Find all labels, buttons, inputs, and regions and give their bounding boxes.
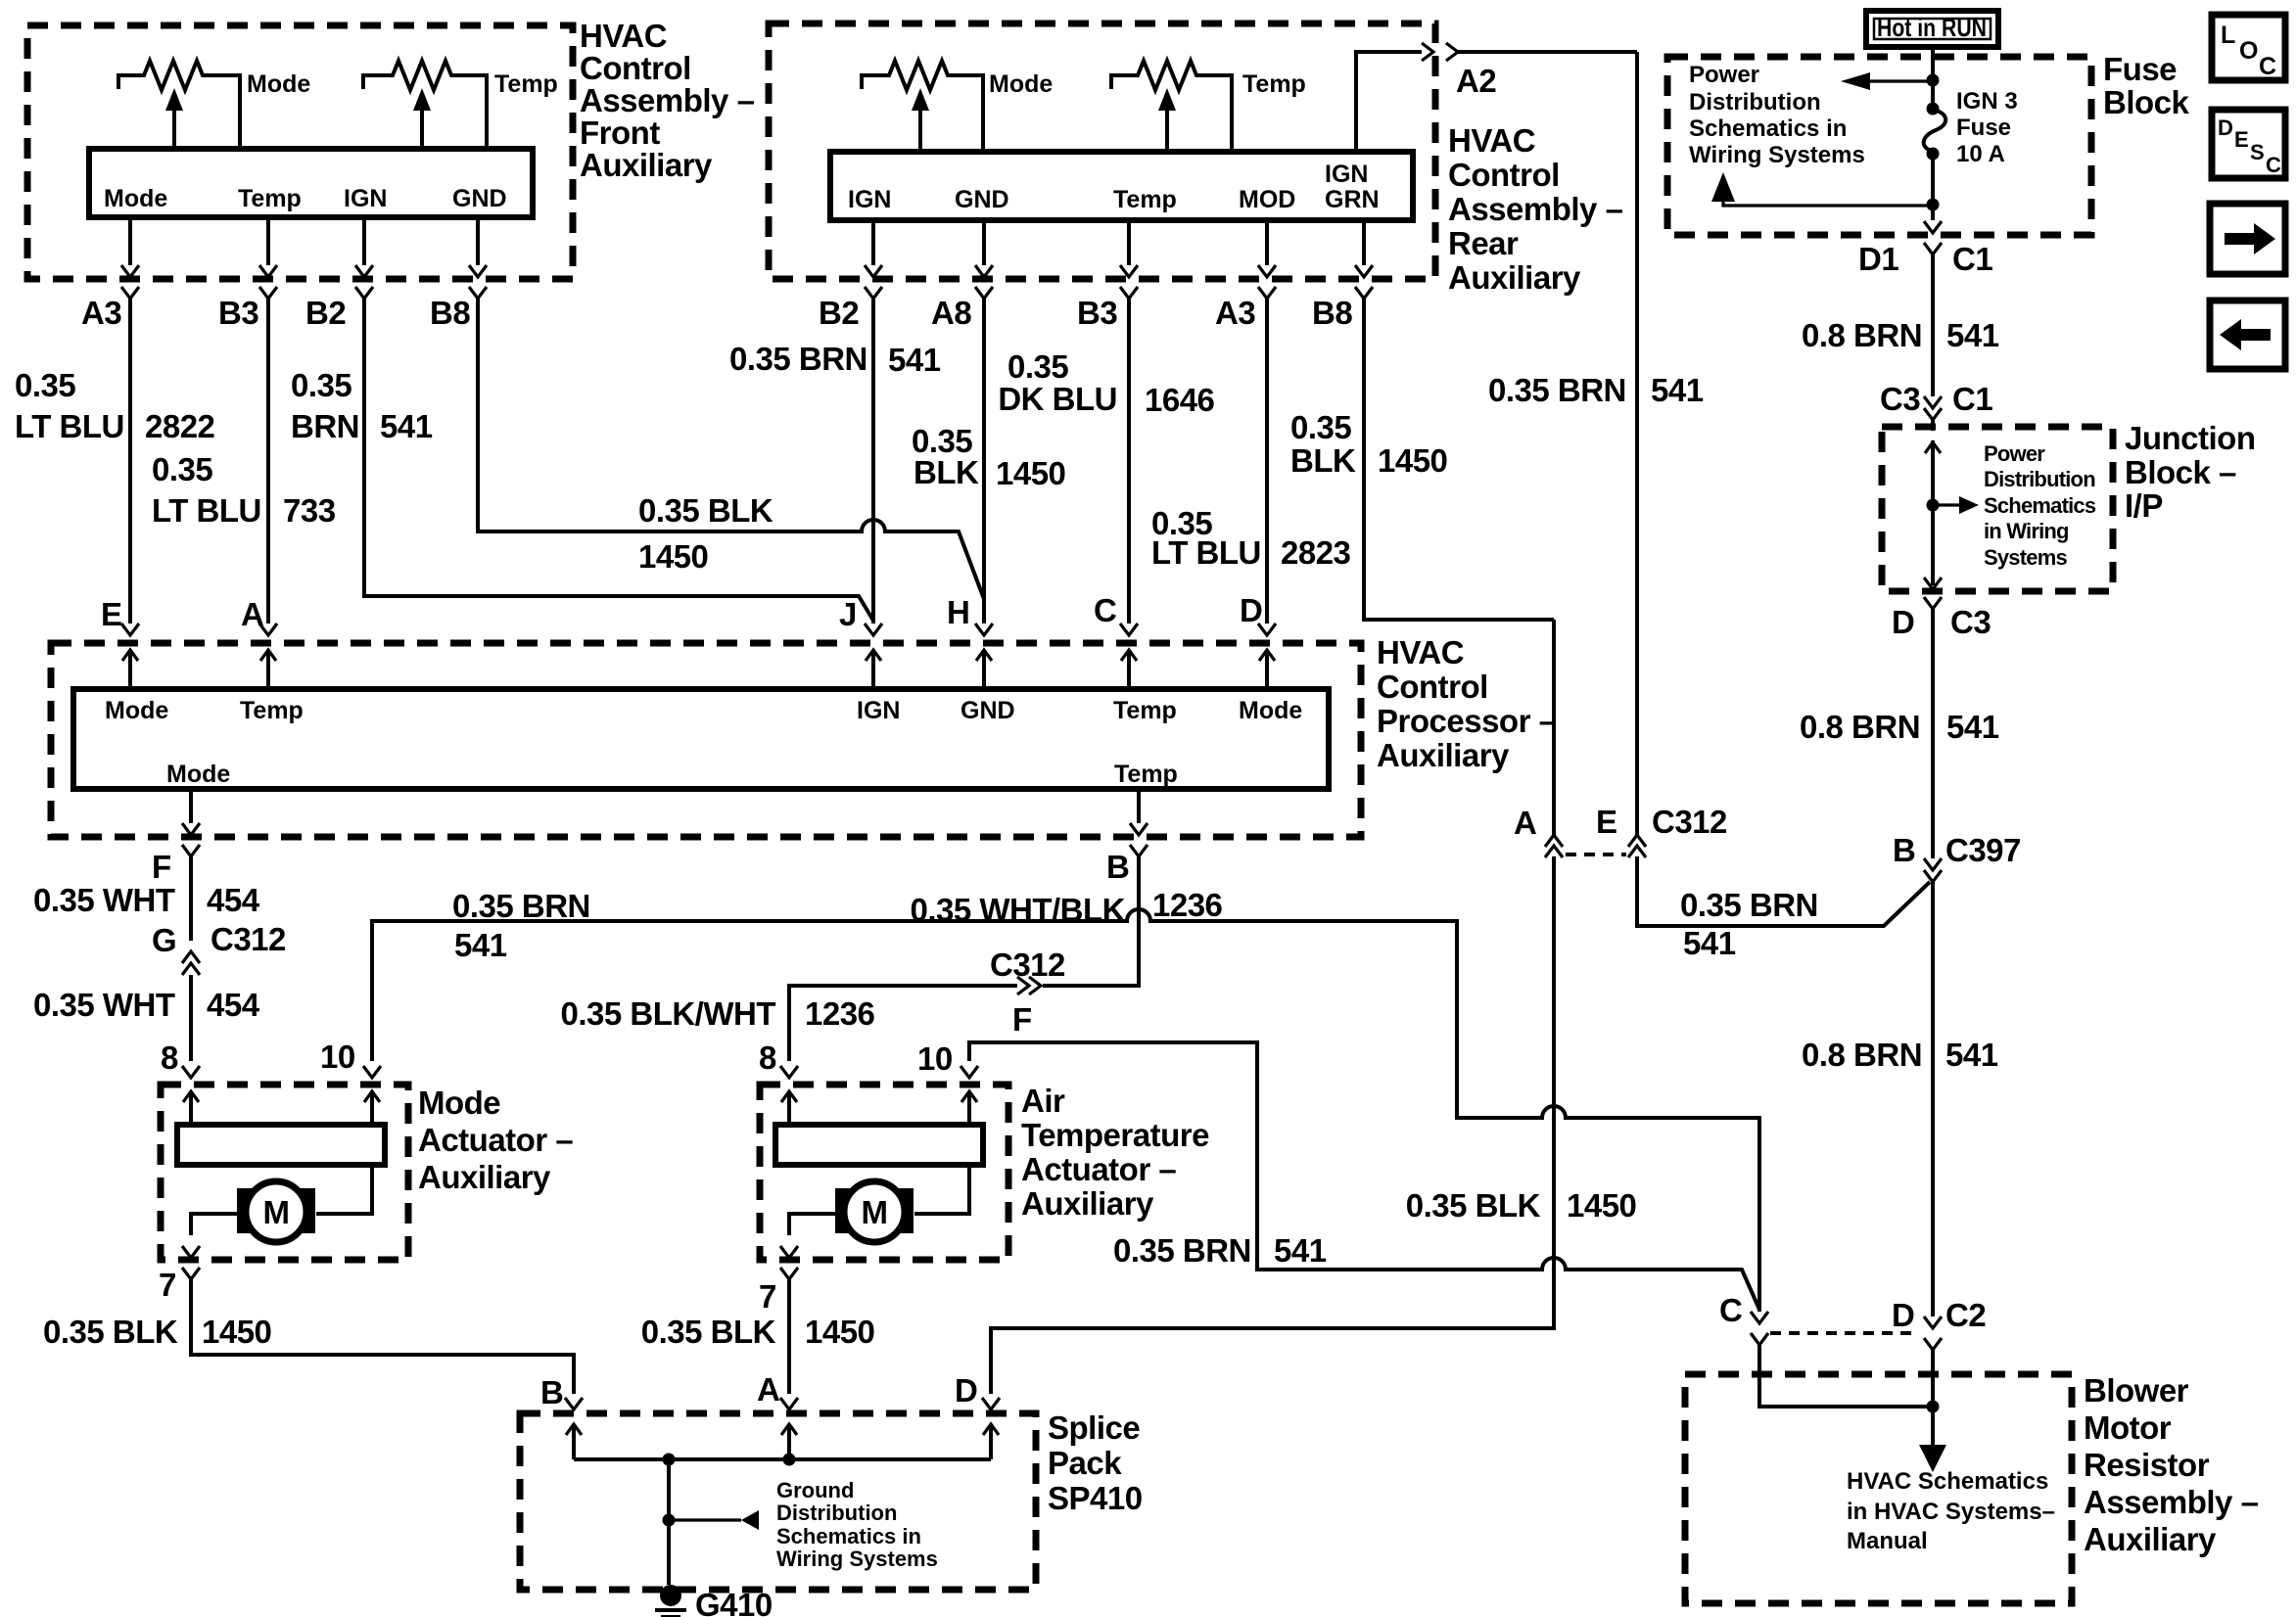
Air Temperature Actuator Auxiliary dashed box <box>760 1085 1008 1260</box>
wire through junction block <box>1931 420 1935 585</box>
mode actuator pin 7 exit <box>182 1246 200 1258</box>
svg-text:Wiring Systems: Wiring Systems <box>776 1547 938 1571</box>
wire C into blower <box>1759 1345 1933 1407</box>
svg-text:Temp: Temp <box>494 70 558 98</box>
junction dot <box>1927 74 1940 87</box>
svg-text:0.35 BLK: 0.35 BLK <box>638 492 773 529</box>
svg-text:D1: D1 <box>1858 241 1898 277</box>
C2 C-D dashed link <box>1770 1331 1916 1335</box>
connector C3/C1 <box>1924 396 1942 408</box>
svg-text:GND: GND <box>955 186 1009 213</box>
processor bottom exits F and B <box>189 789 193 823</box>
svg-text:BRN: BRN <box>291 408 359 444</box>
svg-text:E: E <box>1596 804 1617 840</box>
wiper arrow Mode (front) <box>172 110 176 149</box>
svg-text:1450: 1450 <box>996 455 1065 491</box>
wire junction block down to C397 <box>1931 609 1935 858</box>
wire B8 rear to A-wire corner (0.35 BLK 1450) <box>1364 299 1554 620</box>
svg-text:Temp: Temp <box>1242 70 1306 98</box>
wiper arrow Mode (rear) <box>918 110 922 152</box>
svg-text:Power: Power <box>1984 441 2045 466</box>
LOC icon box <box>2212 15 2285 80</box>
splice bus wire <box>574 1457 991 1461</box>
svg-text:B8: B8 <box>430 295 470 331</box>
mode actuator pin 10 entry <box>363 1066 381 1078</box>
svg-text:541: 541 <box>1946 317 1999 353</box>
HVAC Control Assembly Front Auxiliary dashed box <box>27 25 573 279</box>
svg-text:Processor –: Processor – <box>1377 703 1557 739</box>
right reference arrow <box>1933 503 1959 506</box>
svg-text:0.8 BRN: 0.8 BRN <box>1802 1037 1922 1073</box>
svg-text:541: 541 <box>1274 1232 1327 1269</box>
svg-text:BLK: BLK <box>1290 442 1356 479</box>
svg-text:1450: 1450 <box>202 1314 271 1350</box>
svg-text:Temp: Temp <box>238 185 302 212</box>
svg-text:Auxiliary: Auxiliary <box>580 147 713 183</box>
svg-text:A3: A3 <box>81 295 121 331</box>
svg-text:G410: G410 <box>695 1587 773 1617</box>
svg-text:Power: Power <box>1689 62 1759 88</box>
ground G410 <box>660 1585 681 1606</box>
svg-text:Hot in RUN: Hot in RUN <box>1877 13 1987 42</box>
svg-text:LT BLU: LT BLU <box>1151 534 1261 571</box>
svg-text:C: C <box>1094 592 1116 628</box>
connector pin A2 (rear aux) <box>1422 43 1433 61</box>
wire A2 to right corner <box>1458 50 1637 54</box>
svg-text:SP410: SP410 <box>1048 1480 1143 1516</box>
svg-text:Mode: Mode <box>105 697 168 724</box>
splice pin A entry <box>780 1398 798 1409</box>
wire fuse to bottom <box>1931 154 1935 220</box>
svg-text:DK BLU: DK BLU <box>998 381 1117 417</box>
svg-text:0.8 BRN: 0.8 BRN <box>1800 709 1920 745</box>
mode actuator pin 8 entry <box>182 1066 200 1078</box>
wiper arrow Temp (rear) <box>1165 110 1169 152</box>
svg-text:C397: C397 <box>1945 832 2021 868</box>
wire C397 down to C2 <box>1931 882 1935 1317</box>
svg-text:F: F <box>152 849 171 885</box>
svg-text:B2: B2 <box>819 295 859 331</box>
Mode Actuator Auxiliary dashed box <box>161 1085 408 1260</box>
svg-text:2822: 2822 <box>145 408 215 444</box>
mode actuator element bar <box>177 1125 385 1165</box>
svg-text:HVAC Schematics: HVAC Schematics <box>1847 1468 2048 1495</box>
connector C312 pin E <box>1628 835 1646 847</box>
svg-text:C2: C2 <box>1945 1297 1986 1333</box>
svg-text:0.35 BLK/WHT: 0.35 BLK/WHT <box>560 995 775 1032</box>
svg-text:541: 541 <box>1651 372 1704 408</box>
svg-text:0.35 WHT/BLK: 0.35 WHT/BLK <box>910 892 1125 928</box>
svg-text:H: H <box>947 594 969 630</box>
svg-text:Mode: Mode <box>247 70 310 98</box>
svg-text:LT BLU: LT BLU <box>15 408 124 444</box>
wire B processor down, left to C312 F (0.35 WHT/BLK 1236) <box>1043 856 1139 986</box>
svg-text:0.35: 0.35 <box>1290 409 1351 445</box>
svg-text:in HVAC Systems–: in HVAC Systems– <box>1847 1499 2055 1525</box>
wire air temp pin 10 up right and down (0.35 BRN 541) <box>969 1042 1759 1310</box>
rear aux IGN output wire to A2 <box>1356 52 1422 152</box>
svg-text:Assembly –: Assembly – <box>580 82 755 118</box>
svg-text:Pack: Pack <box>1048 1445 1122 1481</box>
svg-text:Auxiliary: Auxiliary <box>418 1159 551 1195</box>
processor inner box <box>73 689 1329 789</box>
svg-text:541: 541 <box>1683 925 1736 961</box>
Blower Motor Resistor Assembly dashed box <box>1685 1374 2072 1603</box>
svg-text:1646: 1646 <box>1145 382 1215 418</box>
svg-text:Blower: Blower <box>2084 1372 2189 1409</box>
up reference arrow branch <box>1723 202 1927 206</box>
svg-text:Motor: Motor <box>2084 1409 2172 1446</box>
svg-text:F: F <box>1012 1001 1032 1038</box>
svg-text:GRN: GRN <box>1325 186 1380 213</box>
svg-text:C3: C3 <box>1950 604 1991 640</box>
ground reference arrow <box>669 1518 741 1521</box>
svg-text:1450: 1450 <box>805 1314 874 1350</box>
air temp pin 8 entry <box>780 1066 798 1078</box>
wire air pin7 to splice A (0.35 BLK 1450) <box>787 1279 791 1394</box>
svg-text:541: 541 <box>1945 1037 1998 1073</box>
svg-text:Temp: Temp <box>240 697 304 724</box>
svg-text:0.35: 0.35 <box>291 367 351 403</box>
connector C2 pin C <box>1751 1312 1768 1323</box>
svg-text:0.35 BLK: 0.35 BLK <box>641 1314 776 1350</box>
svg-text:Schematics: Schematics <box>1984 493 2096 518</box>
air temp motor wiring <box>789 1165 969 1235</box>
svg-text:D: D <box>1892 1297 1914 1333</box>
left reference arrow (Power Distribution) <box>1870 79 1933 82</box>
svg-text:BLK: BLK <box>914 454 979 490</box>
svg-text:Block: Block <box>2103 84 2190 120</box>
potentiometer Temp (front) <box>363 61 487 149</box>
processor top entry pins E A J H C D <box>121 624 1276 689</box>
wire B2 rear to processor J <box>871 299 875 624</box>
svg-text:A: A <box>1514 805 1536 841</box>
wire from Hot in RUN down <box>1931 47 1935 105</box>
svg-text:Schematics in: Schematics in <box>776 1524 921 1548</box>
svg-text:Temp: Temp <box>1113 697 1177 724</box>
svg-text:B8: B8 <box>1312 295 1352 331</box>
svg-text:Air: Air <box>1021 1083 1065 1119</box>
svg-text:0.35 WHT: 0.35 WHT <box>33 882 175 918</box>
svg-text:Junction: Junction <box>2125 420 2256 456</box>
wire B3 rear to processor C (0.35 DK BLU 1646) <box>1127 299 1131 624</box>
svg-text:10: 10 <box>917 1040 953 1077</box>
svg-text:Rear: Rear <box>1448 225 1519 261</box>
svg-text:0.8 BRN: 0.8 BRN <box>1802 317 1922 353</box>
svg-text:541: 541 <box>380 408 433 444</box>
mode actuator motor wiring <box>191 1165 372 1235</box>
svg-text:HVAC: HVAC <box>1377 634 1464 670</box>
junction dot <box>1927 499 1940 512</box>
connector C312 pin A <box>1552 620 1556 835</box>
svg-text:1450: 1450 <box>1567 1187 1636 1224</box>
potentiometer Mode (rear) <box>862 61 983 152</box>
svg-text:A8: A8 <box>931 295 971 331</box>
Hot in RUN tag <box>1866 11 1998 47</box>
svg-text:Assembly –: Assembly – <box>2084 1484 2259 1520</box>
wire fuse block to junction block <box>1931 254 1935 396</box>
motor M (mode) <box>237 1188 253 1233</box>
wire mode pin7 to splice B (0.35 BLK 1450) <box>191 1279 574 1394</box>
svg-text:Actuator –: Actuator – <box>418 1122 573 1158</box>
svg-text:454: 454 <box>207 882 260 918</box>
svg-text:in Wiring: in Wiring <box>1984 519 2069 543</box>
svg-text:C1: C1 <box>1952 381 1992 417</box>
svg-text:LT BLU: LT BLU <box>152 492 261 529</box>
svg-text:Resistor: Resistor <box>2084 1447 2210 1483</box>
svg-text:Mode: Mode <box>989 70 1053 98</box>
svg-text:0.35 WHT: 0.35 WHT <box>33 987 175 1023</box>
svg-text:IGN 3: IGN 3 <box>1956 88 2018 115</box>
svg-text:Control: Control <box>580 50 691 86</box>
svg-text:0.35 BRN: 0.35 BRN <box>1113 1232 1251 1269</box>
svg-text:Temp: Temp <box>1113 186 1177 213</box>
svg-text:C1: C1 <box>1952 241 1992 277</box>
svg-text:Control: Control <box>1377 669 1488 705</box>
svg-text:MOD: MOD <box>1239 186 1295 213</box>
wire D into blower <box>1931 1350 1935 1445</box>
Junction Block I/P dashed box <box>1882 427 2113 591</box>
svg-text:Systems: Systems <box>1984 545 2067 570</box>
wire mode actuator pin 10 across to blower C (0.35 BRN 541) with hops <box>372 909 1759 1312</box>
connector pin A8 (rear aux) <box>975 265 993 277</box>
connector C312 pin F (horizontal) <box>1017 977 1029 994</box>
svg-text:1236: 1236 <box>1152 887 1223 923</box>
svg-text:0.35 BLK: 0.35 BLK <box>1406 1187 1541 1224</box>
motor M (air temp) <box>835 1188 851 1233</box>
svg-text:M: M <box>862 1194 888 1230</box>
wire B3 front to processor A (0.35 LT BLU 733) <box>266 299 270 624</box>
svg-text:C: C <box>2266 153 2281 177</box>
svg-text:541: 541 <box>454 927 507 963</box>
connector C312 pin G <box>182 951 200 963</box>
junction dot <box>1927 199 1940 211</box>
svg-text:D: D <box>1240 592 1262 628</box>
wire A down to splice pack D (0.35 BLK 1450) <box>991 856 1554 1394</box>
svg-text:E: E <box>101 596 122 632</box>
svg-text:Mode: Mode <box>1239 697 1302 724</box>
connector pin B3 (front aux) <box>259 265 277 277</box>
splice pin B entry <box>565 1398 583 1409</box>
ground stem <box>667 1459 671 1585</box>
svg-text:C312: C312 <box>1652 804 1727 840</box>
svg-text:Schematics in: Schematics in <box>1689 115 1847 142</box>
svg-text:D: D <box>955 1372 977 1409</box>
svg-text:2823: 2823 <box>1281 534 1351 571</box>
svg-text:0.35: 0.35 <box>15 367 75 403</box>
svg-text:B2: B2 <box>305 295 346 331</box>
svg-text:1236: 1236 <box>805 995 875 1032</box>
svg-text:0.35 BRN: 0.35 BRN <box>729 341 867 377</box>
fuse IGN 3 symbol <box>1927 103 1940 115</box>
svg-text:0.35 BRN: 0.35 BRN <box>1680 887 1818 923</box>
fuse block exit connector D1/C1 <box>1924 221 1942 233</box>
wire F processor to G C312 (0.35 WHT 454) <box>189 856 193 941</box>
svg-text:0.35 BRN: 0.35 BRN <box>452 888 590 924</box>
SECTION: labels <box>15 317 1999 1350</box>
air temp pin 10 entry <box>961 1066 978 1078</box>
connector pin B8 (front aux) <box>469 265 487 277</box>
connector B/C397 <box>1924 858 1942 870</box>
wire A3 front to processor E (0.35 LT BLU 2822) <box>128 299 132 624</box>
svg-text:Mode: Mode <box>418 1085 500 1121</box>
svg-text:C312: C312 <box>990 947 1065 983</box>
svg-text:Splice: Splice <box>1048 1409 1140 1446</box>
svg-text:M: M <box>263 1194 290 1230</box>
svg-text:IGN: IGN <box>344 185 387 212</box>
rear aux inner box <box>830 152 1413 220</box>
svg-text:0.35: 0.35 <box>1007 348 1068 385</box>
connector pin B8 (rear aux) <box>1355 265 1373 277</box>
svg-text:Assembly –: Assembly – <box>1448 191 1623 227</box>
potentiometer Mode (front) <box>118 61 240 149</box>
rear aux pin wires B2 A8 B3 A3 B8 <box>873 220 1364 265</box>
svg-text:541: 541 <box>888 342 941 378</box>
svg-text:HVAC: HVAC <box>580 18 667 54</box>
svg-text:Auxiliary: Auxiliary <box>1448 259 1581 296</box>
svg-text:I/P: I/P <box>2125 487 2163 524</box>
svg-text:Wiring Systems: Wiring Systems <box>1689 142 1865 168</box>
svg-text:454: 454 <box>207 987 260 1023</box>
connector pin B2 (rear aux) <box>865 265 882 277</box>
svg-text:GND: GND <box>452 185 507 212</box>
svg-text:Actuator –: Actuator – <box>1021 1151 1176 1187</box>
splice pin D entry <box>982 1398 1000 1409</box>
svg-text:Block –: Block – <box>2125 454 2236 490</box>
svg-text:Manual: Manual <box>1847 1528 1928 1554</box>
svg-text:Distribution: Distribution <box>1984 467 2095 491</box>
svg-text:Distribution: Distribution <box>1689 89 1821 115</box>
svg-text:7: 7 <box>159 1267 176 1303</box>
svg-text:E: E <box>2234 127 2249 152</box>
svg-text:10: 10 <box>320 1039 355 1075</box>
svg-text:10 A: 10 A <box>1956 141 2005 167</box>
svg-text:Front: Front <box>580 115 660 151</box>
svg-text:C3: C3 <box>1880 381 1920 417</box>
svg-text:GND: GND <box>961 697 1015 724</box>
svg-text:1450: 1450 <box>638 538 708 575</box>
connector pin B2 (front aux) <box>355 265 373 277</box>
connector C2 pin D <box>1924 1317 1942 1328</box>
connector pin A3 (rear aux) <box>1258 265 1276 277</box>
HVAC Control Assembly Rear Auxiliary dashed box <box>769 23 1435 279</box>
svg-text:Fuse: Fuse <box>1956 115 2011 141</box>
left arrow icon box <box>2210 300 2285 369</box>
svg-text:Distribution: Distribution <box>776 1501 897 1525</box>
svg-text:Temp: Temp <box>1114 761 1178 788</box>
svg-text:D: D <box>2218 115 2233 140</box>
svg-text:Control: Control <box>1448 157 1560 193</box>
DESC icon box <box>2212 110 2285 178</box>
svg-text:B: B <box>1106 849 1129 885</box>
wiper arrow Temp (front) <box>420 110 424 149</box>
svg-text:C: C <box>1719 1292 1742 1328</box>
svg-text:8: 8 <box>161 1039 178 1076</box>
svg-text:G: G <box>152 922 176 958</box>
svg-text:O: O <box>2239 37 2258 65</box>
wire A3 rear to processor D (0.35 LT BLU 2823) <box>1265 299 1269 624</box>
Splice Pack SP410 dashed box <box>520 1413 1036 1590</box>
svg-text:0.35: 0.35 <box>152 451 212 487</box>
wire G down to mode actuator pin 8 (0.35 WHT 454) <box>189 975 193 1061</box>
svg-text:IGN: IGN <box>857 697 900 724</box>
svg-text:L: L <box>2221 22 2235 49</box>
svg-text:C312: C312 <box>211 921 286 957</box>
connector pin A3 (front aux) <box>121 265 139 277</box>
svg-text:Mode: Mode <box>104 185 167 212</box>
svg-text:IGN: IGN <box>848 186 891 213</box>
A2 wire down right side (0.35 BRN 541) <box>1635 52 1639 835</box>
svg-text:J: J <box>839 596 857 632</box>
arrow to HVAC schematics <box>1919 1445 1946 1472</box>
svg-text:A: A <box>757 1371 779 1408</box>
svg-text:1450: 1450 <box>1378 442 1447 479</box>
HVAC Control Processor Auxiliary dashed box <box>51 643 1361 837</box>
front aux inner box <box>89 149 533 217</box>
right arrow icon box <box>2210 204 2285 274</box>
junction block exit connector D/C3 <box>1924 577 1942 589</box>
air temp pin 7 exit <box>780 1246 798 1258</box>
wire B2 front to processor J (0.35 BRN 541) <box>364 299 873 621</box>
svg-text:Auxiliary: Auxiliary <box>1021 1185 1154 1222</box>
svg-text:Temperature: Temperature <box>1021 1117 1209 1153</box>
wire C312 F to air temp actuator pin 8 (0.35 BLK/WHT 1236) <box>789 986 1017 1061</box>
svg-text:S: S <box>2250 140 2265 164</box>
potentiometer Temp (rear) <box>1111 61 1232 152</box>
connector pin B3 (rear aux) <box>1120 265 1138 277</box>
svg-text:HVAC: HVAC <box>1448 122 1535 159</box>
svg-text:733: 733 <box>283 492 336 529</box>
front aux pin wires A3 B3 B2 B8 <box>130 217 478 265</box>
wire A8 rear to processor H <box>982 299 986 624</box>
svg-text:B3: B3 <box>218 295 258 331</box>
svg-text:IGN: IGN <box>1325 161 1368 188</box>
svg-text:Auxiliary: Auxiliary <box>1377 737 1510 773</box>
svg-text:8: 8 <box>759 1039 776 1076</box>
svg-text:7: 7 <box>759 1278 776 1315</box>
svg-text:A2: A2 <box>1456 63 1496 99</box>
svg-text:C: C <box>2259 53 2276 80</box>
svg-text:A3: A3 <box>1215 295 1255 331</box>
C312 A-E dashed link <box>1566 853 1626 856</box>
svg-text:541: 541 <box>1946 709 1999 745</box>
svg-text:D: D <box>1892 604 1914 640</box>
svg-text:0.35 BLK: 0.35 BLK <box>43 1314 178 1350</box>
wire B8 front to processor H (0.35 BLK 1450) with hop over J wire <box>478 299 984 599</box>
svg-text:B3: B3 <box>1077 295 1117 331</box>
svg-text:A: A <box>241 596 263 632</box>
svg-text:Auxiliary: Auxiliary <box>2084 1521 2217 1557</box>
Fuse Block dashed box <box>1667 57 2091 235</box>
svg-text:B: B <box>1893 832 1915 868</box>
svg-text:Fuse: Fuse <box>2103 51 2177 87</box>
air temp actuator element bar <box>775 1125 983 1165</box>
svg-text:0.35 BRN: 0.35 BRN <box>1488 372 1626 408</box>
svg-text:B: B <box>540 1374 563 1410</box>
svg-text:Mode: Mode <box>166 761 230 788</box>
wire E down and to C397 (0.35 BRN 541) <box>1637 856 1930 926</box>
svg-text:Ground: Ground <box>776 1478 854 1502</box>
